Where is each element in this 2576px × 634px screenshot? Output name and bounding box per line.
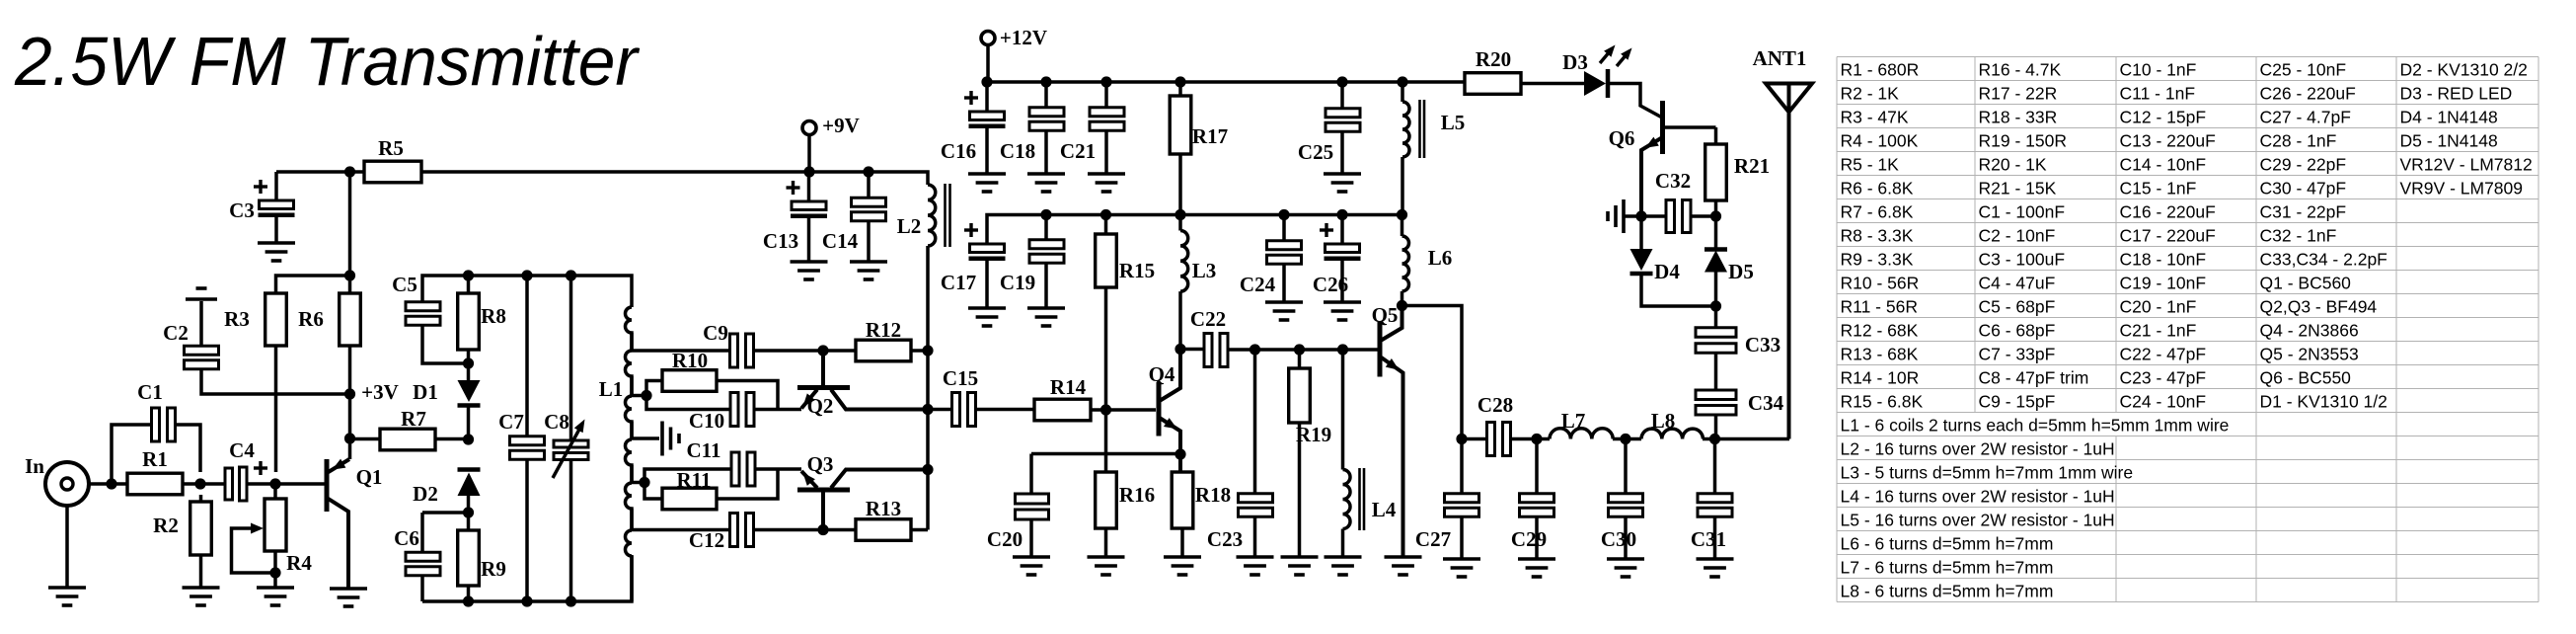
wire: [467, 513, 471, 530]
svg-text:C19: C19: [1000, 271, 1035, 294]
wire Q6 base to R21: [1663, 125, 1716, 129]
wire junction: [1620, 434, 1630, 444]
svg-text:R21: R21: [1734, 154, 1770, 178]
svg-text:C23 - 47pF: C23 - 47pF: [2120, 368, 2207, 388]
wire: [175, 425, 200, 472]
transistor Q6: [1609, 101, 1663, 216]
wire: [1104, 82, 1108, 108]
svg-text:C9 - 15pF: C9 - 15pF: [1979, 392, 2056, 412]
svg-text:2.5W FM Transmitter: 2.5W FM Transmitter: [14, 23, 641, 100]
svg-text:R1: R1: [142, 447, 168, 471]
wire: [644, 483, 662, 500]
svg-text:C29: C29: [1511, 527, 1547, 551]
capacitor C28: [1477, 393, 1513, 456]
capacitor C2: [163, 321, 218, 369]
capacitor C31: [1691, 494, 1732, 551]
wire junction: [566, 595, 576, 606]
svg-text:L7 - 6 turns d=5mm h=7mm: L7 - 6 turns d=5mm h=7mm: [1841, 558, 2054, 578]
capacitor C15: [943, 366, 978, 427]
wire: [348, 276, 352, 293]
wire junction: [803, 166, 814, 177]
svg-text:C18: C18: [1000, 139, 1035, 163]
wire: [1613, 437, 1641, 441]
ground: [258, 243, 295, 261]
ground C2 top (inverted): [186, 288, 217, 299]
wire: [1340, 215, 1344, 245]
wire: [1104, 130, 1108, 174]
wire: [420, 575, 424, 601]
wire: [1340, 82, 1344, 109]
wire: [867, 220, 871, 262]
svg-text:R3 - 47K: R3 - 47K: [1841, 108, 1909, 127]
svg-text:R2: R2: [153, 514, 179, 537]
svg-text:R6 - 6.8K: R6 - 6.8K: [1841, 179, 1914, 198]
inductor L5: [1402, 82, 1465, 215]
wire: [1104, 287, 1108, 410]
svg-text:Q5: Q5: [1372, 303, 1399, 327]
svg-text:C4 - 47uF: C4 - 47uF: [1979, 274, 2056, 293]
svg-text:C24 - 10nF: C24 - 10nF: [2120, 392, 2207, 412]
svg-text:C6: C6: [394, 526, 419, 550]
wire: [1298, 350, 1302, 368]
svg-text:R11 - 56R: R11 - 56R: [1841, 297, 1918, 317]
wire: [1624, 214, 1641, 218]
svg-text:C11: C11: [686, 438, 720, 462]
wire: [467, 276, 471, 293]
wire junction: [1278, 209, 1289, 220]
resistor R19: [1289, 368, 1331, 446]
svg-text:L2: L2: [897, 214, 922, 238]
svg-text:R7 - 6.8K: R7 - 6.8K: [1841, 202, 1914, 222]
wire: [1282, 264, 1286, 302]
svg-text:D5 - 1N4148: D5 - 1N4148: [2400, 131, 2498, 151]
wire: [525, 276, 529, 436]
wire L1 center tap: [632, 436, 659, 440]
wire: [525, 459, 529, 601]
svg-text:C12 - 15pF: C12 - 15pF: [2120, 108, 2207, 127]
ground: [1088, 557, 1125, 575]
svg-text:L4 - 16 turns over 2W resistor: L4 - 16 turns over 2W resistor - 1uH: [1841, 487, 2115, 507]
resistor R10: [662, 349, 717, 391]
capacitor C26: [1313, 223, 1361, 296]
svg-text:D1 - KV1310 1/2: D1 - KV1310 1/2: [2260, 392, 2387, 412]
svg-text:C15 - 1nF: C15 - 1nF: [2120, 179, 2197, 198]
wire junction: [521, 270, 532, 280]
svg-text:C5 - 68pF: C5 - 68pF: [1979, 297, 2056, 317]
capacitor C32: [1655, 169, 1691, 233]
svg-text:R10: R10: [672, 349, 708, 372]
capacitor C21: [1060, 108, 1124, 163]
wire Q1 emitter/collector node: [348, 346, 352, 459]
ground: [183, 588, 220, 605]
wire: [183, 482, 225, 486]
wire: [1091, 408, 1156, 412]
wire junction: [344, 270, 355, 280]
inductor L7: [1550, 409, 1613, 439]
capacitor C11: [731, 452, 755, 486]
wire: [1624, 516, 1628, 559]
resistor R8: [458, 293, 506, 350]
svg-text:R10 - 56R: R10 - 56R: [1841, 274, 1920, 293]
wire: [1044, 82, 1048, 108]
wire junction: [1040, 209, 1051, 220]
svg-text:R6: R6: [298, 307, 324, 331]
parts table text: [1841, 60, 2533, 601]
svg-text:C8 - 47pF trim: C8 - 47pF trim: [1979, 368, 2089, 388]
svg-text:R17 - 22R: R17 - 22R: [1979, 84, 2058, 104]
capacitor C4: [225, 438, 267, 501]
ground: [1027, 308, 1065, 326]
wire junction: [1336, 76, 1347, 87]
resistor R7: [380, 407, 435, 450]
wire: [753, 408, 801, 412]
svg-text:C2: C2: [163, 321, 189, 345]
wire: [1180, 348, 1204, 352]
terminal +12V: [981, 26, 1047, 49]
capacitor C18: [1000, 108, 1064, 163]
wire: [1253, 350, 1257, 493]
svg-text:Q4 - 2N3866: Q4 - 2N3866: [2260, 321, 2359, 341]
svg-text:R9: R9: [481, 557, 506, 581]
inductor L6: [1402, 215, 1453, 306]
resistor R12: [856, 318, 911, 361]
wire: [1641, 214, 1666, 218]
svg-text:Q3: Q3: [807, 452, 834, 476]
wire: [1282, 215, 1286, 242]
svg-text:C20 - 1nF: C20 - 1nF: [2120, 297, 2197, 317]
wire junction: [1174, 209, 1185, 220]
wire C22 to Q5 base: [1228, 348, 1380, 352]
transistor Q4: [1149, 350, 1180, 473]
svg-text:C7: C7: [498, 410, 524, 434]
wire: [274, 172, 278, 200]
wire: [274, 346, 278, 472]
ground: [968, 308, 1006, 326]
wire junction: [463, 595, 474, 606]
svg-text:C18 - 10nF: C18 - 10nF: [2120, 250, 2207, 270]
wire: [467, 350, 471, 363]
svg-text:R19 - 150R: R19 - 150R: [1979, 131, 2068, 151]
wire: [1521, 82, 1584, 86]
resistor R1: [127, 447, 183, 495]
ground: [48, 588, 86, 605]
wire +12V rail: [987, 80, 1465, 84]
transistor Q1: [327, 459, 382, 589]
diode D2: [413, 470, 480, 514]
svg-text:L3: L3: [1192, 259, 1217, 282]
wire: [199, 495, 203, 502]
wire tank bottom rail: [422, 555, 632, 601]
svg-text:R12: R12: [866, 318, 901, 342]
diode D5: [1705, 216, 1754, 306]
wire: [1691, 214, 1716, 218]
wire junction: [1709, 434, 1720, 444]
ground: [1518, 559, 1555, 577]
wire: [1044, 215, 1048, 241]
svg-text:R3: R3: [224, 307, 250, 331]
wire junction: [1040, 76, 1051, 87]
wire junction: [1531, 434, 1542, 444]
capacitor C1: [137, 380, 175, 441]
wire: [467, 586, 471, 601]
svg-text:D2: D2: [413, 482, 438, 506]
ground: [1443, 559, 1480, 577]
wire junction: [521, 595, 532, 606]
wire: [201, 367, 349, 394]
svg-text:L5: L5: [1441, 111, 1466, 134]
wire: [646, 396, 731, 410]
svg-text:R20: R20: [1476, 47, 1511, 71]
svg-text:C15: C15: [943, 366, 978, 390]
svg-text:Q6 - BC550: Q6 - BC550: [2260, 368, 2352, 388]
capacitor C16: [941, 91, 1006, 163]
capacitor C6: [394, 526, 440, 576]
wire junction: [922, 464, 933, 475]
wire C12 to R13: [753, 528, 856, 532]
resistor R5: [364, 136, 421, 183]
svg-text:D4 - 1N4148: D4 - 1N4148: [2400, 108, 2498, 127]
svg-text:R7: R7: [401, 407, 426, 431]
svg-text:R4 - 100K: R4 - 100K: [1841, 131, 1919, 151]
ground: [1265, 302, 1303, 320]
capacitor C13: [763, 181, 827, 253]
wire junction: [194, 478, 205, 489]
svg-text:R8: R8: [481, 304, 506, 328]
svg-text:L4: L4: [1372, 498, 1397, 521]
wire: [1178, 154, 1182, 215]
resistor R13: [856, 497, 911, 540]
svg-text:R14 - 10R: R14 - 10R: [1841, 368, 1920, 388]
ground: [791, 262, 828, 279]
svg-text:R18: R18: [1195, 483, 1231, 507]
wire: [435, 437, 468, 441]
ground: [1013, 557, 1050, 575]
svg-text:C27: C27: [1415, 527, 1451, 551]
svg-text:C22: C22: [1190, 307, 1226, 331]
svg-text:C7 - 33pF: C7 - 33pF: [1979, 345, 2056, 364]
resistor R15: [1096, 234, 1155, 287]
capacitor C10: [689, 393, 754, 434]
svg-text:R16 - 4.7K: R16 - 4.7K: [1979, 60, 2062, 80]
wire junction: [1337, 344, 1348, 355]
wire junction: [463, 270, 474, 280]
svg-text:L5 - 16 turns over 2W resistor: L5 - 16 turns over 2W resistor - 1uH: [1841, 511, 2115, 530]
capacitor C12: [689, 514, 754, 553]
inductor L3: [1180, 215, 1216, 350]
svg-text:C1 - 100nF: C1 - 100nF: [1979, 202, 2066, 222]
ground: [1324, 174, 1361, 192]
wire: [1511, 437, 1550, 441]
resistor R20: [1465, 47, 1521, 94]
wire: [199, 301, 203, 348]
svg-text:C12: C12: [689, 528, 724, 552]
wire: [755, 467, 801, 471]
svg-text:C10 - 1nF: C10 - 1nF: [2120, 60, 2197, 80]
svg-text:C16 - 220uF: C16 - 220uF: [2120, 202, 2216, 222]
wire: [422, 325, 468, 363]
svg-text:C25: C25: [1298, 140, 1333, 164]
svg-text:R15: R15: [1119, 259, 1155, 282]
wire: [1714, 200, 1718, 216]
wire junction: [1710, 210, 1721, 221]
wire: [1460, 516, 1464, 559]
inductor L4: [1343, 350, 1397, 557]
ground: [1697, 559, 1734, 577]
svg-text:Q4: Q4: [1149, 362, 1175, 386]
transistor Q2: [797, 351, 928, 418]
svg-text:D3 - RED LED: D3 - RED LED: [2400, 84, 2513, 104]
wire: [1535, 516, 1539, 559]
svg-text:Q1 - BC560: Q1 - BC560: [2260, 274, 2352, 293]
junction Q5 collector: [1397, 300, 1407, 311]
svg-text:R9 - 3.3K: R9 - 3.3K: [1841, 250, 1914, 270]
wire: [644, 469, 731, 483]
wire: [985, 128, 989, 174]
svg-text:C28 - 1nF: C28 - 1nF: [2260, 131, 2337, 151]
svg-text:+12V: +12V: [1000, 26, 1047, 49]
ground L1 center tap (rotated): [662, 422, 679, 456]
capacitor C19: [1000, 240, 1064, 294]
svg-text:C13 - 220uF: C13 - 220uF: [2120, 131, 2216, 151]
capacitor C17: [941, 223, 1006, 294]
wire: [1703, 437, 1789, 441]
wire: [1714, 353, 1718, 391]
svg-text:R5: R5: [378, 136, 404, 160]
svg-text:D5: D5: [1728, 260, 1754, 283]
capacitor C14: [822, 198, 886, 253]
svg-text:C27 - 4.7pF: C27 - 4.7pF: [2260, 108, 2351, 127]
ground: [1324, 302, 1361, 320]
svg-text:C26 - 220uF: C26 - 220uF: [2260, 84, 2356, 104]
wire: [65, 506, 69, 588]
wire: [1044, 130, 1048, 174]
transistor Q3: [797, 452, 928, 530]
wire: [422, 511, 468, 515]
wire junction: [641, 390, 651, 401]
wire: [807, 172, 811, 201]
svg-text:L1: L1: [599, 377, 624, 401]
wire junction: [1336, 209, 1347, 220]
svg-text:C19 - 10nF: C19 - 10nF: [2120, 274, 2207, 293]
svg-text:In: In: [25, 454, 44, 478]
inductor L2: [897, 184, 950, 247]
wire junction: [269, 478, 280, 489]
svg-text:C24: C24: [1240, 273, 1276, 296]
wire: [1460, 439, 1464, 495]
wire junction: [106, 478, 116, 489]
svg-text:D2 - KV1310 2/2: D2 - KV1310 2/2: [2400, 60, 2528, 80]
junction R7/D1/D2: [463, 434, 474, 444]
wire junction: [1294, 344, 1305, 355]
svg-text:C17 - 220uF: C17 - 220uF: [2120, 226, 2216, 246]
wire: [1178, 82, 1182, 96]
wire: [867, 172, 871, 198]
potentiometer R4: [232, 484, 313, 588]
svg-text:C33: C33: [1745, 333, 1780, 357]
parts table grid: [1837, 57, 2538, 602]
svg-text:R15 - 6.8K: R15 - 6.8K: [1841, 392, 1924, 412]
wire: [717, 469, 778, 499]
svg-text:C30 - 47pF: C30 - 47pF: [2260, 179, 2347, 198]
wire: [1298, 423, 1302, 557]
capacitor C23: [1207, 494, 1273, 551]
junction D2/C6/R9: [463, 507, 474, 517]
svg-text:C30: C30: [1601, 527, 1636, 551]
ground: [257, 588, 294, 605]
svg-text:R14: R14: [1050, 375, 1087, 399]
capacitor C29: [1511, 494, 1554, 551]
svg-text:+9V: +9V: [822, 114, 860, 137]
svg-text:C23: C23: [1207, 527, 1243, 551]
svg-text:R16: R16: [1119, 483, 1155, 507]
svg-text:Q2: Q2: [807, 394, 834, 418]
wire junction: [269, 567, 280, 578]
wire: [1713, 439, 1717, 495]
svg-text:C32: C32: [1655, 169, 1691, 193]
capacitor C20: [987, 494, 1049, 551]
wire L1 tap to C9: [632, 349, 730, 353]
svg-text:D1: D1: [413, 380, 438, 404]
svg-text:C29 - 22pF: C29 - 22pF: [2260, 155, 2347, 175]
capacitor C22: [1190, 307, 1228, 367]
svg-text:R12 - 68K: R12 - 68K: [1841, 321, 1919, 341]
capacitor C30: [1601, 494, 1643, 551]
wire junction: [463, 357, 474, 368]
svg-text:C32 - 1nF: C32 - 1nF: [2260, 226, 2337, 246]
wire: [1714, 306, 1718, 328]
ground: [1385, 557, 1422, 575]
wire: [911, 528, 928, 532]
connector In jack: [25, 454, 89, 506]
ground: [1237, 557, 1274, 575]
capacitor C5: [392, 273, 440, 325]
wire junction: [344, 166, 355, 177]
wire junction: [817, 524, 828, 535]
capacitor C25: [1298, 109, 1360, 164]
wire: [985, 82, 989, 112]
wire: [807, 134, 811, 172]
wire: [1029, 520, 1033, 558]
svg-text:L2 - 16 turns over 2W resistor: L2 - 16 turns over 2W resistor - 1uH: [1841, 439, 2115, 459]
wire: [348, 172, 352, 276]
wire: [1104, 528, 1108, 557]
svg-text:R21 - 15K: R21 - 15K: [1979, 179, 2057, 198]
svg-text:L1 - 6 coils 2 turns each d=5m: L1 - 6 coils 2 turns each d=5mm h=5mm 1m…: [1841, 416, 2230, 436]
wire junction: [1250, 344, 1260, 355]
wire junction: [639, 477, 649, 488]
wire C20 to Q4 emitter: [1031, 452, 1180, 456]
wire junction: [566, 270, 576, 280]
wire C9 to R12: [753, 349, 856, 353]
wire: [1044, 263, 1048, 308]
wire: [646, 381, 662, 396]
svg-text:Q2,Q3 - BF494: Q2,Q3 - BF494: [2260, 297, 2378, 317]
wire: [1610, 84, 1662, 119]
svg-text:R4: R4: [286, 551, 312, 575]
wire tank top: [422, 276, 632, 307]
resistor R6: [298, 293, 360, 346]
svg-text:L8 - 6 turns d=5mm h=7mm: L8 - 6 turns d=5mm h=7mm: [1841, 582, 2054, 601]
wire junction: [817, 345, 828, 356]
svg-text:R11: R11: [676, 468, 711, 492]
svg-text:L3 - 5 turns d=5mm h=7mm 1mm w: L3 - 5 turns d=5mm h=7mm 1mm wire: [1841, 463, 2134, 483]
wire junction: [922, 404, 933, 415]
wire: [976, 408, 1034, 412]
wire junction: [1635, 210, 1646, 221]
svg-text:C25 - 10nF: C25 - 10nF: [2260, 60, 2347, 80]
antenna ANT1: [1753, 46, 1812, 439]
wire: [1253, 517, 1257, 557]
